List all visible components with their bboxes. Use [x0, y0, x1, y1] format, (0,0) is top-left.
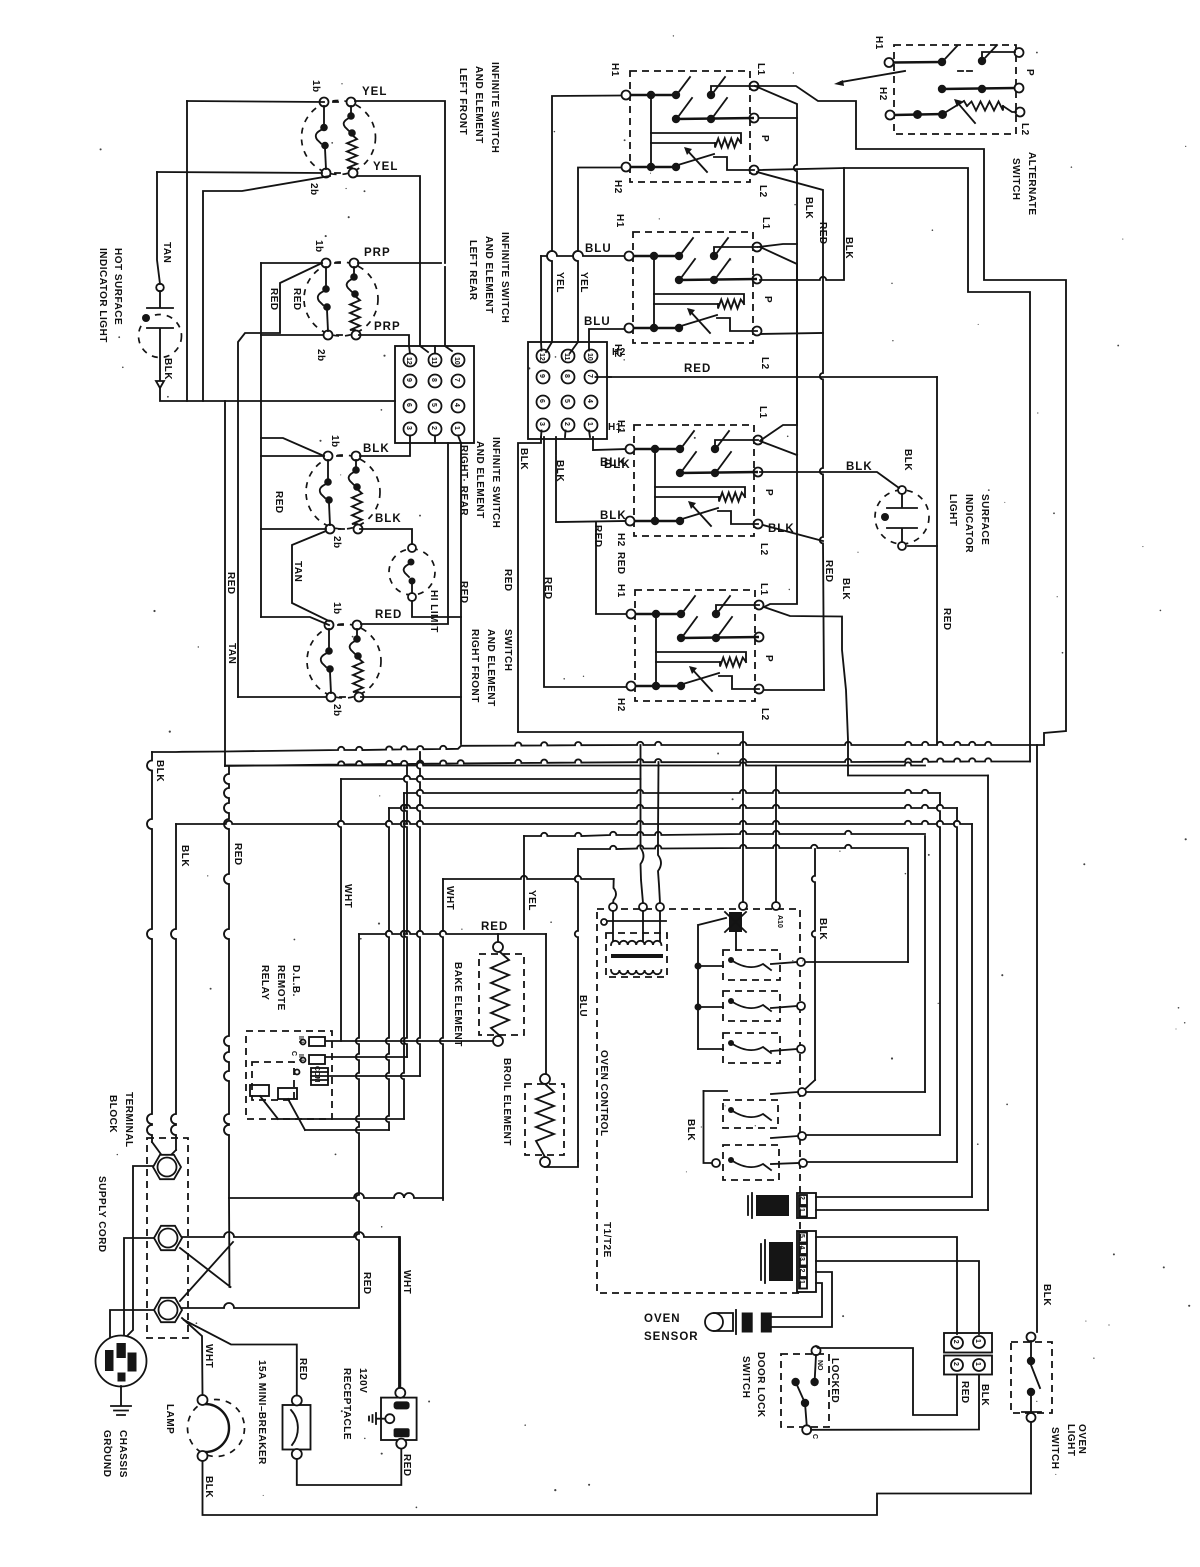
svg-text:RED: RED: [592, 525, 603, 548]
svg-text:D.L.B.: D.L.B.: [290, 965, 301, 997]
svg-text:BLK: BLK: [600, 510, 627, 522]
svg-text:RED: RED: [297, 1358, 308, 1381]
svg-text:120V: 120V: [357, 1368, 368, 1393]
svg-text:RED: RED: [361, 1272, 372, 1295]
svg-text:INFINITE SWITCH: INFINITE SWITCH: [499, 232, 510, 323]
svg-text:RELAY: RELAY: [259, 965, 270, 1000]
svg-text:RED: RED: [481, 921, 508, 933]
svg-text:LEFT FRONT: LEFT FRONT: [457, 68, 468, 135]
svg-text:1b: 1b: [331, 602, 342, 615]
svg-text:BROIL ELEMENT: BROIL ELEMENT: [501, 1058, 512, 1146]
svg-text:H2: H2: [612, 180, 623, 194]
svg-text:CHASSIS: CHASSIS: [117, 1430, 128, 1478]
svg-text:RED: RED: [375, 609, 402, 621]
svg-text:H2: H2: [615, 698, 626, 712]
svg-text:H1: H1: [615, 420, 626, 434]
svg-text:INFINITE SWITCH: INFINITE SWITCH: [490, 437, 501, 528]
svg-text:12: 12: [538, 353, 545, 361]
svg-text:P: P: [759, 135, 770, 142]
svg-text:BLK: BLK: [768, 523, 795, 535]
svg-text:BLK: BLK: [363, 443, 390, 455]
svg-text:ALTERNATE: ALTERNATE: [1026, 152, 1037, 216]
svg-text:2: 2: [952, 1340, 959, 1344]
svg-text:H1: H1: [873, 36, 884, 50]
svg-text:BLU: BLU: [577, 995, 588, 1017]
svg-text:LIGHT: LIGHT: [1065, 1424, 1076, 1457]
svg-text:OVEN: OVEN: [644, 1313, 681, 1325]
svg-text:2b: 2b: [331, 536, 342, 549]
svg-text:1: 1: [798, 1280, 805, 1284]
svg-text:10: 10: [586, 353, 593, 361]
svg-text:1: 1: [798, 1208, 805, 1212]
svg-text:A10: A10: [776, 915, 783, 928]
svg-text:AND ELEMENT: AND ELEMENT: [474, 441, 485, 519]
svg-text:SURFACE: SURFACE: [979, 494, 990, 545]
svg-text:BLOCK: BLOCK: [107, 1095, 118, 1133]
svg-text:P: P: [763, 489, 774, 496]
svg-text:C: C: [290, 1051, 297, 1056]
svg-text:RIGHT· REAR: RIGHT· REAR: [458, 445, 469, 516]
svg-text:SUPPLY CORD: SUPPLY CORD: [96, 1176, 107, 1253]
svg-text:5: 5: [563, 399, 570, 403]
svg-text:1b: 1b: [329, 435, 340, 448]
svg-text:YEL: YEL: [578, 272, 589, 293]
svg-text:RED: RED: [684, 363, 711, 375]
svg-text:BLK: BLK: [518, 448, 529, 470]
svg-text:RECEPTACLE: RECEPTACLE: [341, 1368, 352, 1440]
svg-text:IN: IN: [297, 1054, 304, 1061]
svg-text:BLK: BLK: [846, 461, 873, 473]
svg-text:BLK: BLK: [817, 918, 828, 940]
svg-text:RED: RED: [823, 560, 834, 583]
svg-text:L2: L2: [758, 543, 769, 556]
svg-text:L2: L2: [757, 185, 768, 198]
svg-text:L2: L2: [759, 708, 770, 721]
svg-text:10: 10: [453, 357, 460, 365]
svg-text:1: 1: [586, 422, 593, 426]
svg-text:2b: 2b: [315, 349, 326, 362]
svg-text:YEL: YEL: [554, 272, 565, 293]
svg-text:SWITCH: SWITCH: [1049, 1427, 1060, 1469]
svg-text:3: 3: [798, 1257, 805, 1261]
svg-text:RED: RED: [458, 581, 469, 604]
svg-text:C: C: [811, 1434, 818, 1439]
svg-text:2b: 2b: [308, 183, 319, 196]
svg-text:H2: H2: [615, 533, 626, 547]
svg-text:IN: IN: [297, 1036, 304, 1043]
svg-text:PRP: PRP: [374, 321, 401, 333]
svg-text:BLK: BLK: [803, 197, 814, 219]
svg-text:RED: RED: [615, 552, 626, 575]
svg-text:NO: NO: [816, 1360, 823, 1371]
svg-text:1: 1: [974, 1362, 981, 1366]
svg-text:SWITCH: SWITCH: [502, 629, 513, 671]
svg-text:BAKE ELEMENT: BAKE ELEMENT: [452, 962, 463, 1047]
svg-text:4: 4: [586, 399, 593, 403]
svg-text:2: 2: [798, 1269, 805, 1273]
svg-text:6: 6: [538, 399, 545, 403]
svg-text:H1: H1: [609, 63, 620, 77]
svg-text:SWITCH: SWITCH: [740, 1356, 751, 1398]
svg-text:BLK: BLK: [685, 1119, 696, 1141]
svg-text:4: 4: [798, 1246, 805, 1250]
svg-text:9: 9: [405, 378, 412, 382]
svg-text:P: P: [1024, 69, 1035, 76]
svg-text:9: 9: [538, 374, 545, 378]
svg-text:AND ELEMENT: AND ELEMENT: [473, 66, 484, 144]
svg-text:L1: L1: [757, 406, 768, 419]
svg-text:LIGHT: LIGHT: [947, 494, 958, 527]
svg-text:DOOR LOCK: DOOR LOCK: [755, 1352, 766, 1418]
svg-text:YEL: YEL: [362, 86, 387, 98]
svg-text:BLK: BLK: [154, 760, 165, 782]
svg-text:5: 5: [798, 1234, 805, 1238]
svg-text:PRP: PRP: [364, 247, 391, 259]
svg-text:RED: RED: [273, 491, 284, 514]
svg-text:WHT: WHT: [342, 884, 353, 908]
svg-text:2b: 2b: [331, 704, 342, 717]
svg-text:BLK: BLK: [162, 358, 173, 380]
svg-text:TAN: TAN: [226, 643, 237, 664]
svg-text:RED: RED: [291, 288, 302, 311]
svg-text:8: 8: [563, 374, 570, 378]
svg-text:WHT: WHT: [401, 1270, 412, 1294]
svg-text:WHT: WHT: [203, 1344, 214, 1368]
svg-text:RED: RED: [502, 569, 513, 592]
svg-text:BLK: BLK: [203, 1476, 214, 1498]
svg-text:4: 4: [453, 403, 460, 407]
svg-text:BLK: BLK: [600, 457, 627, 469]
svg-text:BLK: BLK: [979, 1384, 990, 1406]
svg-text:3: 3: [405, 426, 412, 430]
svg-text:YEL: YEL: [373, 161, 398, 173]
svg-text:AND ELEMENT: AND ELEMENT: [485, 629, 496, 707]
svg-text:WHT: WHT: [444, 886, 455, 910]
svg-text:INDICATOR: INDICATOR: [963, 494, 974, 553]
svg-text:INDICATOR LIGHT: INDICATOR LIGHT: [97, 248, 108, 343]
svg-text:BLU: BLU: [584, 316, 611, 328]
svg-text:COM: COM: [313, 1066, 320, 1083]
svg-text:SENSOR: SENSOR: [644, 1331, 699, 1343]
svg-text:BLK: BLK: [375, 513, 402, 525]
svg-text:H2: H2: [877, 87, 888, 101]
svg-text:REMOTE: REMOTE: [275, 965, 286, 1011]
svg-text:BLK: BLK: [1041, 1284, 1052, 1306]
svg-text:BLK: BLK: [843, 237, 854, 259]
svg-text:L2: L2: [759, 357, 770, 370]
svg-text:L1: L1: [760, 217, 771, 230]
svg-text:12: 12: [405, 357, 412, 365]
svg-text:L1: L1: [755, 63, 766, 76]
svg-text:TAN: TAN: [292, 561, 303, 582]
svg-text:L2: L2: [1019, 123, 1030, 136]
svg-text:P: P: [762, 296, 773, 303]
svg-text:P: P: [763, 655, 774, 662]
svg-text:RED: RED: [232, 843, 243, 866]
svg-text:1b: 1b: [313, 240, 324, 253]
svg-text:RED: RED: [959, 1381, 970, 1404]
svg-text:HI LIMIT: HI LIMIT: [428, 590, 439, 633]
svg-text:2: 2: [952, 1362, 959, 1366]
svg-text:15A MINI–BREAKER: 15A MINI–BREAKER: [256, 1360, 267, 1465]
svg-text:INFINITE SWITCH: INFINITE SWITCH: [489, 62, 500, 153]
svg-text:8: 8: [430, 378, 437, 382]
svg-text:RED: RED: [225, 572, 236, 595]
svg-text:2: 2: [563, 422, 570, 426]
svg-text:T1/T2E: T1/T2E: [601, 1222, 612, 1258]
svg-text:2: 2: [798, 1196, 805, 1200]
svg-text:RED: RED: [268, 288, 279, 311]
svg-text:6: 6: [405, 403, 412, 407]
svg-text:1: 1: [453, 426, 460, 430]
svg-text:GROUND: GROUND: [101, 1430, 112, 1477]
svg-text:OVEN: OVEN: [1076, 1424, 1087, 1454]
svg-text:L1: L1: [758, 583, 769, 596]
svg-text:TAN: TAN: [161, 242, 172, 263]
svg-text:7: 7: [453, 378, 460, 382]
svg-text:RED: RED: [401, 1454, 412, 1477]
svg-text:LAMP: LAMP: [164, 1404, 175, 1434]
svg-text:RED: RED: [817, 222, 828, 245]
svg-text:RED: RED: [941, 608, 952, 631]
svg-text:YEL: YEL: [526, 890, 537, 911]
svg-text:BLK: BLK: [179, 845, 190, 867]
svg-text:SWITCH: SWITCH: [1010, 158, 1021, 200]
svg-text:OVEN CONTROL: OVEN CONTROL: [598, 1050, 609, 1137]
svg-text:BLK: BLK: [902, 449, 913, 471]
svg-text:H1: H1: [614, 214, 625, 228]
svg-text:HOT SURFACE: HOT SURFACE: [112, 248, 123, 325]
svg-text:5: 5: [430, 403, 437, 407]
svg-text:7: 7: [586, 374, 593, 378]
svg-text:TERMINAL: TERMINAL: [123, 1092, 134, 1148]
svg-text:1b: 1b: [310, 80, 321, 93]
svg-text:H1: H1: [615, 584, 626, 598]
svg-text:1: 1: [974, 1339, 981, 1343]
svg-text:LEFT REAR: LEFT REAR: [467, 240, 478, 301]
svg-text:3: 3: [538, 422, 545, 426]
svg-text:BLU: BLU: [585, 243, 612, 255]
svg-text:H2: H2: [612, 344, 623, 358]
svg-text:11: 11: [563, 353, 570, 361]
svg-text:BLK: BLK: [840, 578, 851, 600]
svg-text:LOCKED: LOCKED: [829, 1358, 840, 1403]
svg-text:BLK: BLK: [554, 460, 565, 482]
svg-text:2: 2: [430, 426, 437, 430]
svg-text:11: 11: [430, 357, 437, 365]
svg-text:AND ELEMENT: AND ELEMENT: [483, 236, 494, 314]
svg-text:RED: RED: [542, 577, 553, 600]
svg-text:RIGHT FRONT: RIGHT FRONT: [469, 629, 480, 703]
